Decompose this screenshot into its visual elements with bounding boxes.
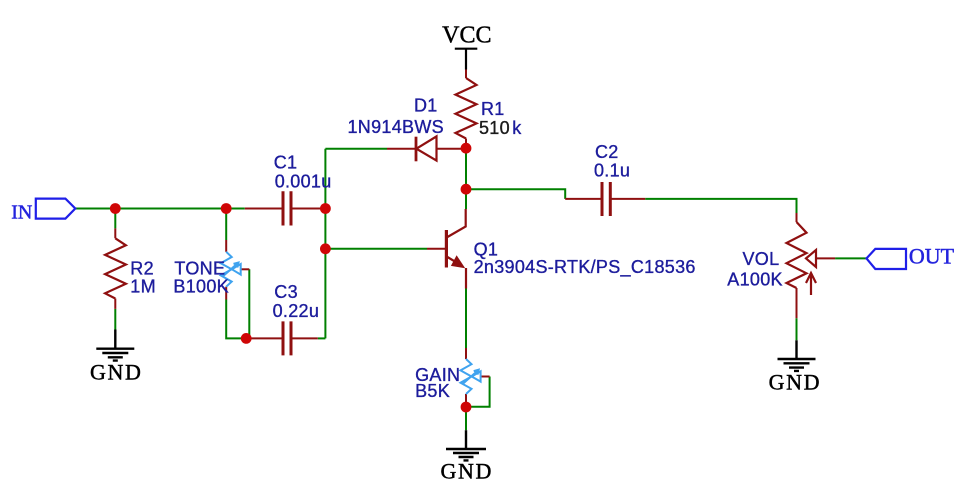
svg-text:GND: GND (90, 359, 142, 384)
svg-text:0.22u: 0.22u (273, 301, 320, 321)
svg-text:2n3904S-RTK/PS_C18536: 2n3904S-RTK/PS_C18536 (474, 257, 696, 278)
svg-text:GND: GND (441, 459, 493, 484)
svg-text:1M: 1M (130, 276, 156, 296)
svg-text:B100K: B100K (173, 277, 229, 297)
svg-text:0.001u: 0.001u (275, 171, 332, 191)
svg-text:510: 510 (479, 118, 510, 138)
svg-text:OUT: OUT (909, 244, 955, 269)
svg-text:VCC: VCC (442, 22, 491, 48)
svg-text:C1: C1 (274, 153, 298, 173)
svg-text:A100K: A100K (727, 269, 783, 289)
svg-text:C2: C2 (595, 142, 619, 162)
svg-text:R1: R1 (481, 99, 505, 119)
svg-text:IN: IN (11, 201, 32, 223)
svg-text:TONE: TONE (174, 258, 225, 278)
svg-text:D1: D1 (414, 96, 438, 116)
svg-text:B5K: B5K (415, 381, 450, 401)
svg-text:0.1u: 0.1u (594, 160, 630, 180)
svg-text:GND: GND (769, 369, 821, 394)
svg-text:1N914BWS: 1N914BWS (348, 117, 444, 137)
svg-text:C3: C3 (274, 282, 298, 302)
svg-text:k: k (512, 118, 522, 138)
svg-text:VOL: VOL (743, 249, 780, 269)
